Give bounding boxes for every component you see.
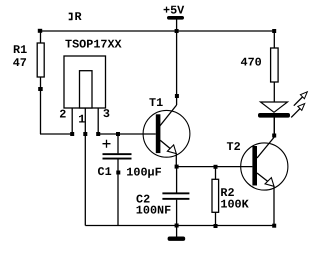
svg-text:C1: C1 bbox=[98, 165, 112, 179]
svg-text:3: 3 bbox=[103, 107, 110, 121]
svg-text:470: 470 bbox=[241, 56, 262, 70]
svg-text:+5V: +5V bbox=[163, 4, 185, 18]
svg-text:T2: T2 bbox=[227, 140, 241, 154]
svg-text:47: 47 bbox=[13, 56, 27, 70]
svg-text:2: 2 bbox=[59, 108, 66, 122]
svg-text:100K: 100K bbox=[220, 198, 249, 212]
svg-text:100µF: 100µF bbox=[126, 166, 161, 180]
svg-text:TSOP17XX: TSOP17XX bbox=[65, 38, 123, 52]
svg-text:R: R bbox=[75, 10, 83, 24]
svg-text:100NF: 100NF bbox=[136, 204, 171, 218]
svg-text:T1: T1 bbox=[149, 96, 163, 110]
svg-text:R1: R1 bbox=[13, 43, 27, 57]
svg-text:1: 1 bbox=[78, 113, 85, 127]
